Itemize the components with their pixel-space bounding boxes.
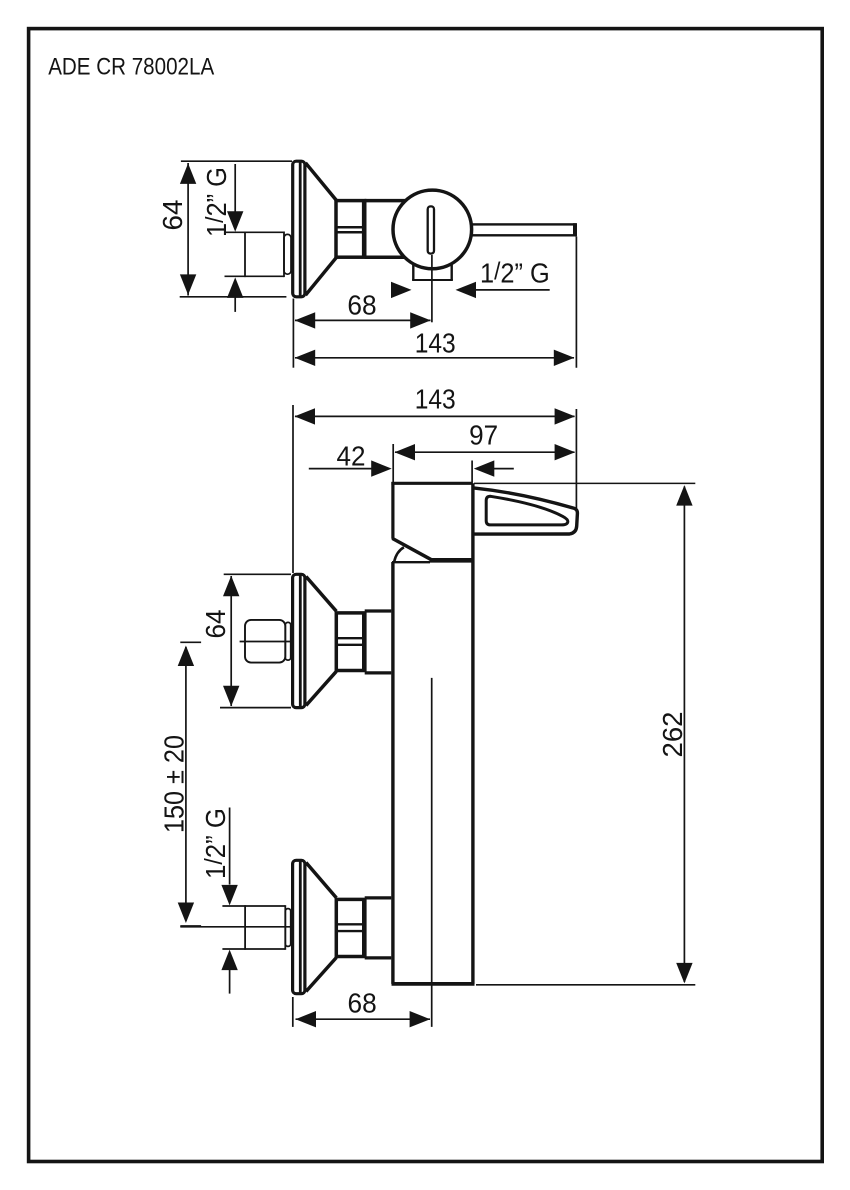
front view: wall face extension line <box>292 405 294 573</box>
front view dimension 97: dimension line with arrows <box>395 444 576 460</box>
top view dimension 143: dimension line with arrows <box>295 350 575 366</box>
svg-text:143: 143 <box>415 384 456 415</box>
front view: body top shoulder line <box>392 561 430 563</box>
front view: body centre line <box>431 678 433 1027</box>
svg-text:42: 42 <box>337 440 366 471</box>
front view dimension 42: arrows <box>309 460 514 476</box>
front view: upper union nut <box>336 612 364 672</box>
top view: centre line through outlet <box>431 255 433 322</box>
front view: lower connecting tube <box>365 898 392 958</box>
front view dimension 68: dimension line with arrows <box>296 1011 431 1027</box>
top view: threaded inlet pipe <box>225 232 292 278</box>
top view dimension 68: dimension line with arrows <box>295 312 431 328</box>
front view: handle pivot extension line <box>471 461 473 483</box>
svg-text:64: 64 <box>157 200 188 231</box>
front view dimension 262: dimension line with arrows <box>676 485 692 983</box>
front view: lower cone <box>306 863 336 992</box>
front view: 262 bottom extension line <box>476 984 695 986</box>
front view: lever handle inner loop <box>486 496 568 525</box>
svg-text:68: 68 <box>347 289 376 320</box>
front view: 262 top extension line <box>474 482 695 484</box>
svg-text:262: 262 <box>657 712 688 758</box>
front view: lever handle outer outline <box>474 488 578 534</box>
front view: lower pipe centre line <box>180 926 291 928</box>
svg-text:1/2” G: 1/2” G <box>201 167 232 237</box>
front view: upper pipe centre line <box>240 641 291 643</box>
svg-text:ADE CR 78002LA: ADE CR 78002LA <box>48 54 214 81</box>
front view: upper cone <box>306 577 336 706</box>
front view dimension 64: extension lines <box>224 573 291 575</box>
top view: outlet port below handle <box>412 258 453 280</box>
front view dimension 97: extension line <box>392 444 394 482</box>
top view dimension 1/2 G outlet: arrows <box>391 282 550 298</box>
top view: handle slot <box>428 206 434 253</box>
svg-text:150 ± 20: 150 ± 20 <box>159 735 190 833</box>
front view: lower threaded pipe <box>285 909 290 947</box>
svg-text:68: 68 <box>348 987 377 1018</box>
front view dimension 143: dimension line with arrows <box>295 408 576 424</box>
front view dimension 150±20: ticks <box>180 641 201 643</box>
front view: body outline <box>392 483 475 984</box>
svg-text:1/2” G: 1/2” G <box>200 808 231 879</box>
front view dimension 150±20: dimension line with arrows <box>178 646 194 924</box>
top view: escutcheon plate <box>293 161 305 297</box>
front view dimension 64: dimension line with arrows <box>223 576 239 707</box>
front view: lever tip extension line <box>575 409 577 509</box>
top view dimension 64: extension lines <box>181 160 292 162</box>
svg-text:1/2” G: 1/2” G <box>480 258 550 289</box>
svg-text:64: 64 <box>200 610 231 639</box>
top view dimension 64: dimension line with arrows <box>180 163 196 296</box>
front view: lower pipe extension lines <box>222 905 285 907</box>
front view: upper escutcheon plate <box>293 574 305 707</box>
top view: wall face extension line <box>292 299 294 368</box>
top view: union nut <box>336 200 365 259</box>
svg-text:97: 97 <box>469 420 498 451</box>
top view dimension 1/2 G inlet: arrows and extension lines <box>227 164 243 312</box>
front view: cartridge cap block <box>391 482 474 562</box>
front view: upper connecting tube <box>365 611 392 673</box>
top view: handle knob circle <box>393 190 472 269</box>
top view: cone of wall union <box>306 163 337 295</box>
top view: body band between nut and handle <box>365 201 410 258</box>
front view: bottom wall extension line <box>292 997 294 1027</box>
front view: lower union nut <box>336 898 364 958</box>
front view: lower escutcheon plate <box>293 860 305 993</box>
front view: upper threaded pipe <box>245 620 291 663</box>
front view dimension 1/2 G: arrows <box>221 808 237 994</box>
svg-text:143: 143 <box>415 328 456 359</box>
top view: lever bar <box>452 223 575 236</box>
top view: lever tip extension line <box>575 237 577 368</box>
